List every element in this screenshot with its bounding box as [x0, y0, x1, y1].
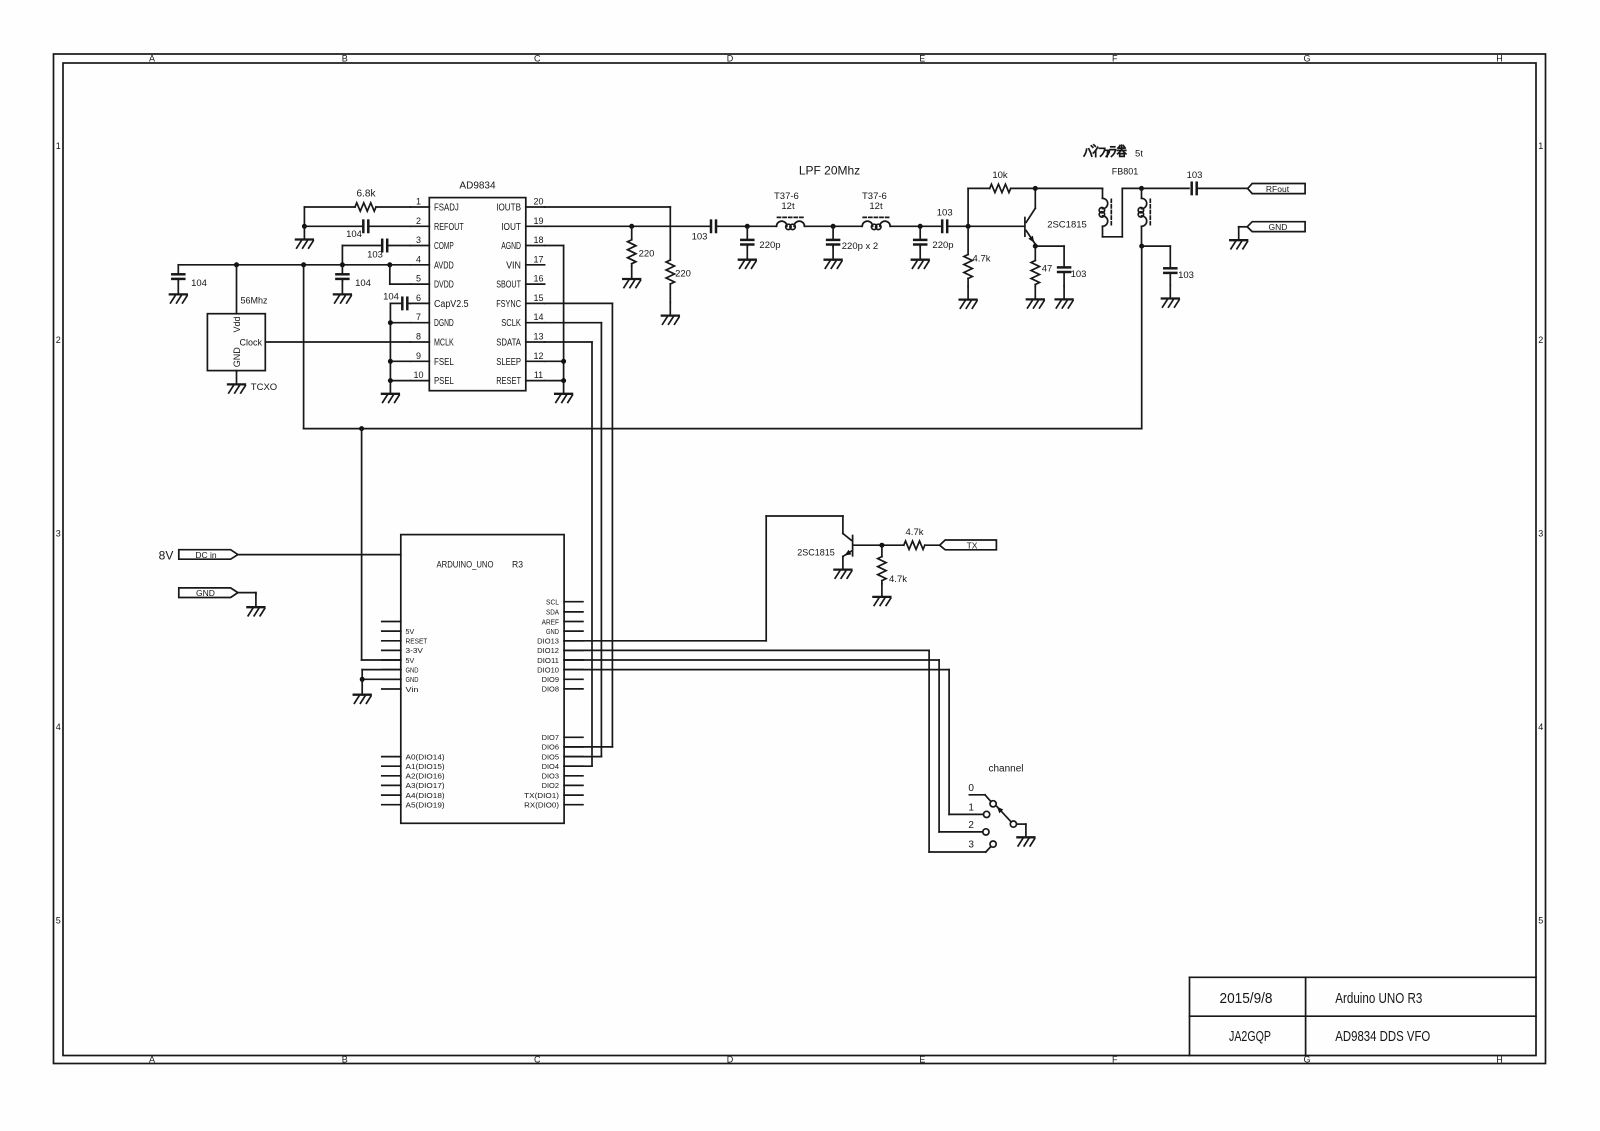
net flag GND left: [179, 588, 238, 598]
svg-text:SCL: SCL: [546, 598, 559, 607]
svg-text:8V: 8V: [159, 549, 174, 563]
svg-text:12: 12: [533, 351, 543, 361]
wire cap to RFout: [1197, 187, 1248, 189]
svg-text:5: 5: [1538, 915, 1543, 925]
svg-text:A1(DIO15): A1(DIO15): [406, 762, 446, 771]
ground under 4.7k shunt: [873, 584, 890, 606]
wire Q2 base shunt down: [881, 545, 883, 556]
capacitor 104 REFOUT series: [368, 225, 410, 227]
svg-text:13: 13: [533, 332, 543, 342]
resistor 4.7k TX series: [904, 541, 925, 549]
transformer FB801 primary return: [1103, 236, 1123, 238]
svg-text:D: D: [727, 54, 734, 64]
U1 pin 4 AVDD stub: [411, 264, 430, 266]
wire emitter down: [1034, 246, 1036, 260]
svg-text:DIO4: DIO4: [542, 762, 559, 771]
svg-text:GND: GND: [1269, 222, 1288, 232]
svg-text:PSEL: PSEL: [434, 376, 454, 387]
node IOUT/220: [629, 224, 634, 229]
U1 pin 18 AGND stub: [526, 245, 545, 247]
switch contact 3 circle: [990, 841, 996, 847]
wire PSEL link: [390, 380, 410, 382]
svg-text:R3: R3: [512, 559, 523, 570]
wire DIO13 to Q2 collector: [564, 640, 766, 642]
svg-text:8: 8: [416, 332, 421, 342]
svg-text:DIO7: DIO7: [542, 733, 559, 742]
U2 pin Vin stub: [382, 688, 401, 690]
node 220p first: [745, 224, 750, 229]
U2 pin A4(DIO18) stub: [382, 794, 401, 796]
transformer FB801 primary core dashes: [1110, 199, 1112, 226]
svg-text:12t: 12t: [869, 201, 883, 212]
svg-text:220p x 2: 220p x 2: [842, 241, 878, 252]
node FB801 output top: [1139, 186, 1144, 191]
wire 4.7k to gnd: [967, 279, 969, 287]
node bus/DGND: [388, 320, 393, 325]
ground under 4.7k base: [960, 286, 977, 308]
wire emitter to 103 cap: [1035, 245, 1064, 247]
U2 pin DIO9 stub: [564, 678, 583, 680]
U2 pin 5V stub: [382, 630, 401, 632]
svg-text:Vdd: Vdd: [232, 316, 242, 332]
capacitor 103 output series: [1192, 183, 1197, 194]
svg-text:SCLK: SCLK: [501, 318, 521, 329]
border column letters bottom: [149, 1054, 1503, 1064]
capacitor 220p second shunt: [919, 226, 921, 240]
svg-text:103: 103: [1187, 170, 1203, 181]
svg-text:G: G: [1303, 54, 1310, 64]
U1 pin 20 IOUTB stub: [526, 206, 545, 208]
U2 pin DIO7 stub: [564, 736, 583, 738]
U2 pin A0(DIO14) stub: [382, 756, 401, 758]
U1 pin 19 IOUT stub: [526, 225, 545, 227]
svg-text:GND: GND: [546, 627, 559, 636]
ground under 104 bypass mid: [334, 281, 351, 303]
node AVDD/COMP: [340, 262, 345, 267]
svg-text:TX: TX: [967, 541, 978, 551]
U2 pin SCL stub: [564, 601, 583, 603]
transformer bifilar winding note (katakana) 5t: [1084, 145, 1126, 157]
wire 4.7k shunt to gnd: [881, 581, 883, 584]
capacitor 103 COMP series: [387, 245, 410, 247]
U2 pin RESET stub: [382, 640, 401, 642]
U2 pin DIO3 stub: [564, 775, 583, 777]
wire base node down: [967, 226, 969, 254]
svg-text:5: 5: [56, 915, 61, 925]
node bus/FSEL: [388, 359, 393, 364]
svg-text:7: 7: [416, 312, 421, 322]
svg-text:MCLK: MCLK: [434, 338, 454, 349]
svg-text:SDA: SDA: [546, 608, 559, 617]
ground under DGND bus: [382, 381, 399, 403]
ground under switch: [1017, 824, 1034, 846]
svg-text:RFout: RFout: [1266, 184, 1290, 194]
ground under 104 bypass left: [170, 281, 187, 303]
wire DIO12 to channel 3: [564, 649, 929, 651]
svg-text:RX(DIO0): RX(DIO0): [524, 801, 559, 810]
wire TCXO clock to MCLK: [265, 341, 410, 343]
wire GND flag left: [238, 592, 256, 594]
ground under 103 emitter: [1056, 286, 1073, 308]
U2 pin DIO10 stub: [564, 669, 583, 671]
svg-text:20: 20: [533, 197, 543, 207]
node 220p second: [918, 224, 923, 229]
svg-text:11: 11: [534, 370, 543, 380]
U2 pin AREF stub: [564, 621, 583, 623]
wire DVDD branch: [389, 265, 391, 284]
U2 pin TX(DIO1) stub: [564, 794, 583, 796]
svg-text:RESET: RESET: [496, 376, 521, 387]
svg-text:DC in: DC in: [195, 550, 217, 560]
svg-text:0: 0: [968, 783, 974, 794]
svg-text:A: A: [149, 1054, 155, 1064]
svg-text:B: B: [342, 1054, 348, 1064]
ground under AGND: [555, 381, 572, 403]
wire TCXO gnd: [236, 370, 238, 373]
svg-text:DIO5: DIO5: [542, 752, 559, 761]
svg-text:FB801: FB801: [1112, 167, 1139, 177]
title block table: [1190, 977, 1537, 1055]
svg-text:18: 18: [533, 235, 543, 245]
svg-text:SBOUT: SBOUT: [496, 280, 521, 291]
svg-text:FSEL: FSEL: [434, 357, 454, 368]
svg-text:COMP: COMP: [434, 241, 454, 252]
svg-text:16: 16: [533, 274, 543, 284]
svg-text:SDATA: SDATA: [496, 338, 521, 349]
svg-text:GND: GND: [406, 665, 419, 674]
U1 pin 5 DVDD stub: [411, 283, 430, 285]
wire switch common to gnd: [1017, 823, 1026, 825]
U1 pin 7 DGND stub: [411, 322, 430, 324]
svg-text:AGND: AGND: [501, 241, 521, 252]
svg-text:2: 2: [56, 335, 61, 345]
svg-text:RESET: RESET: [406, 637, 428, 646]
resistor 4.7k TX shunt: [878, 557, 886, 581]
svg-text:4.7k: 4.7k: [973, 254, 991, 265]
svg-text:2SC1815: 2SC1815: [1047, 220, 1087, 231]
wire supply rail down and left: [1141, 246, 1143, 429]
transistor Q2 2SC1815: [843, 534, 853, 557]
node AVDD/5V riser: [301, 262, 306, 267]
svg-text:REFOUT: REFOUT: [434, 222, 464, 233]
svg-text:103: 103: [367, 250, 383, 261]
svg-text:A0(DIO14): A0(DIO14): [406, 752, 446, 761]
svg-text:2015/9/8: 2015/9/8: [1220, 990, 1273, 1007]
ground under 220p second: [912, 247, 929, 269]
svg-text:DIO10: DIO10: [537, 665, 559, 674]
node AVDD/DVDD: [387, 262, 392, 267]
ground below 6.8k node: [296, 226, 313, 248]
wire COMP branch down to AVDD rail: [341, 246, 343, 265]
U2 pin A1(DIO15) stub: [382, 765, 401, 767]
ground under 47: [1027, 286, 1044, 308]
wire base node up: [967, 188, 969, 226]
svg-text:104: 104: [191, 278, 207, 289]
U1 pin 13 SDATA stub: [526, 341, 545, 343]
ground under 220 IOUT: [623, 266, 640, 288]
svg-text:220: 220: [639, 249, 655, 260]
svg-text:LPF 20Mhz: LPF 20Mhz: [799, 164, 860, 178]
U2 pin A2(DIO16) stub: [382, 775, 401, 777]
svg-text:103: 103: [1071, 269, 1087, 280]
wire 103 to Q1 base: [947, 225, 1023, 227]
svg-text:C: C: [534, 54, 541, 64]
resistor 220 IOUT: [628, 240, 636, 264]
svg-text:CapV2.5: CapV2.5: [434, 299, 469, 310]
svg-text:B: B: [342, 54, 348, 64]
svg-text:H: H: [1496, 54, 1503, 64]
wire arduino GND down: [361, 679, 363, 681]
net flag TX: [940, 540, 997, 550]
node supply rail / arduino 5V: [359, 426, 364, 431]
svg-text:9: 9: [416, 351, 421, 361]
U1 pin 14 SCLK stub: [526, 322, 545, 324]
svg-text:DIO3: DIO3: [542, 772, 559, 781]
svg-text:5V: 5V: [406, 656, 415, 665]
capacitor 103 emitter bypass: [1063, 246, 1065, 267]
svg-text:4: 4: [1538, 722, 1543, 732]
U1 pin 17 VIN stub: [526, 264, 545, 266]
U2 pin DIO4 stub: [564, 765, 583, 767]
svg-text:TCXO: TCXO: [251, 382, 277, 393]
U2 pin DIO8 stub: [564, 688, 583, 690]
wire SDATA to DIO4: [545, 341, 592, 343]
svg-text:3: 3: [416, 235, 421, 245]
IC U1 AD9834 body: [429, 198, 526, 391]
wire Q2 base: [854, 544, 904, 546]
wire DIO11 to channel 2: [564, 659, 939, 661]
svg-text:DGND: DGND: [434, 318, 454, 329]
wire DGND bus vertical: [389, 303, 391, 380]
svg-text:5: 5: [416, 274, 421, 284]
svg-text:Arduino UNO R3: Arduino UNO R3: [1335, 990, 1422, 1007]
wire FSADJ down to gnd node: [303, 207, 305, 226]
resistor 47 emitter: [1031, 261, 1039, 285]
svg-text:AVDD: AVDD: [434, 260, 454, 271]
TCXO oscillator box: [207, 314, 265, 371]
wire FB801 to output cap: [1142, 187, 1190, 189]
resistor 4.7k base: [964, 255, 972, 279]
svg-text:A5(DIO19): A5(DIO19): [406, 801, 446, 810]
svg-text:A4(DIO18): A4(DIO18): [406, 791, 446, 800]
inductor T37-6 second core dashes: [863, 216, 890, 218]
svg-text:3-3V: 3-3V: [406, 646, 423, 655]
wire coil1 to coil2: [805, 225, 863, 227]
border row numbers right: [1538, 141, 1543, 925]
svg-text:3: 3: [56, 528, 61, 538]
wire secondary bottom to 103 shunt: [1142, 245, 1171, 247]
svg-text:DIO2: DIO2: [542, 781, 559, 790]
U1 pin 12 SLEEP stub: [526, 360, 545, 362]
capacitor 104 CapV2.5 series: [407, 302, 410, 304]
svg-text:IOUTB: IOUTB: [496, 203, 521, 214]
net flag GND right: [1247, 222, 1305, 232]
inductor T37-6 second: [862, 221, 890, 230]
transistor Q1 2SC1815: [1025, 188, 1035, 246]
node AGND/RESET: [561, 378, 566, 383]
resistor 220 IOUTB: [666, 260, 674, 284]
node Q2 base: [879, 543, 884, 548]
wire 220 IOUTB to gnd: [669, 284, 671, 302]
svg-text:47: 47: [1042, 264, 1053, 275]
wire 103 to coil1: [716, 225, 777, 227]
U1 pin 8 MCLK stub: [411, 341, 430, 343]
ground under arduino GND: [354, 682, 371, 704]
U1 pin 16 SBOUT stub: [526, 283, 545, 285]
svg-text:6: 6: [416, 293, 421, 303]
svg-text:10k: 10k: [992, 170, 1008, 181]
wire 47 to gnd: [1034, 285, 1036, 287]
node arduino GND: [360, 677, 365, 682]
svg-text:4: 4: [56, 722, 61, 732]
svg-text:DVDD: DVDD: [434, 280, 454, 291]
switch contact 2 circle: [983, 829, 989, 835]
svg-text:D: D: [727, 1054, 734, 1064]
net flag RFout: [1248, 184, 1305, 194]
wire AGND pin18: [545, 245, 564, 247]
node Q1 base junction: [966, 224, 971, 229]
svg-text:19: 19: [533, 216, 543, 226]
svg-text:15: 15: [533, 293, 543, 303]
svg-text:VIN: VIN: [506, 260, 521, 271]
wire SLEEP to AGND: [545, 360, 564, 362]
svg-text:103: 103: [937, 208, 953, 219]
svg-text:JA2GQP: JA2GQP: [1229, 1028, 1271, 1045]
svg-text:6.8k: 6.8k: [357, 189, 377, 200]
svg-text:G: G: [1303, 1054, 1310, 1064]
capacitor 220p first shunt: [746, 226, 748, 240]
U1 pin 3 COMP stub: [411, 245, 430, 247]
switch contact 0 stub: [969, 794, 985, 796]
border column letters top: [149, 54, 1503, 64]
svg-text:17: 17: [533, 254, 543, 264]
svg-text:4.7k: 4.7k: [889, 574, 907, 585]
svg-text:FSADJ: FSADJ: [434, 203, 459, 214]
ground under GND flag: [1230, 227, 1247, 249]
wire FSYNC to DIO6: [545, 302, 613, 304]
svg-text:E: E: [919, 54, 925, 64]
svg-text:E: E: [919, 1054, 925, 1064]
node Q1 emitter: [1033, 244, 1038, 249]
svg-text:ARDUINO_UNO: ARDUINO_UNO: [437, 559, 494, 570]
transformer FB801 primary winding: [1102, 188, 1104, 198]
node 220p x2: [831, 224, 836, 229]
svg-text:A2(DIO16): A2(DIO16): [406, 772, 446, 781]
svg-text:104: 104: [346, 229, 362, 240]
switch common contact circle: [1010, 821, 1016, 827]
svg-text:220p: 220p: [932, 240, 953, 251]
U2 pin GND stub: [564, 630, 583, 632]
wire DGND stub link: [390, 322, 410, 324]
svg-text:1: 1: [1538, 141, 1543, 151]
svg-text:104: 104: [383, 291, 399, 302]
ground under 220 IOUTB: [662, 302, 679, 324]
svg-text:104: 104: [355, 278, 371, 289]
wire arduino GND bracket: [362, 669, 401, 671]
ground under 220p x2: [825, 247, 842, 269]
capacitor 104 AVDD bypass mid: [341, 265, 343, 275]
svg-text:2SC1815: 2SC1815: [797, 548, 835, 558]
switch contact 1 circle: [984, 811, 990, 817]
svg-text:10: 10: [413, 370, 423, 380]
svg-text:2: 2: [1538, 335, 1543, 345]
svg-text:103: 103: [1178, 270, 1194, 281]
wire DC in to arduino: [238, 554, 401, 556]
ground under 220p first: [739, 247, 756, 269]
svg-text:FSYNC: FSYNC: [496, 299, 521, 310]
U2 pin A5(DIO19) stub: [382, 804, 401, 806]
wire SCLK to DIO5: [545, 322, 602, 324]
net flag DC in: [179, 550, 238, 560]
svg-text:2: 2: [416, 216, 421, 226]
svg-text:220p: 220p: [759, 240, 780, 251]
svg-text:DIO9: DIO9: [542, 675, 559, 684]
node Q1 collector: [1033, 186, 1038, 191]
wire AVDD rail: [178, 264, 410, 266]
svg-text:14: 14: [533, 312, 543, 322]
wire FSEL link: [390, 360, 410, 362]
svg-text:5t: 5t: [1135, 149, 1143, 160]
svg-text:GND: GND: [406, 675, 419, 684]
wire 220 shunt: [631, 226, 633, 239]
capacitor 103 supply bypass: [1169, 246, 1171, 268]
capacitor 220p x 2 shunt: [832, 226, 834, 240]
svg-text:DIO11: DIO11: [537, 656, 559, 665]
svg-text:DIO8: DIO8: [542, 685, 559, 694]
svg-text:AD9834: AD9834: [459, 181, 496, 192]
U2 pin SDA stub: [564, 611, 583, 613]
inductor T37-6 first: [777, 221, 805, 230]
border row numbers left: [56, 141, 61, 925]
wire DIO10 to channel 1: [564, 669, 949, 671]
svg-text:GND: GND: [232, 347, 242, 368]
U2 pin nc stub: [382, 621, 401, 623]
svg-text:F: F: [1112, 1054, 1118, 1064]
svg-text:3: 3: [1538, 528, 1543, 538]
svg-text:103: 103: [692, 232, 708, 243]
U2 pin GND stub: [382, 678, 401, 680]
inductor T37-6 first core dashes: [778, 216, 805, 218]
U2 pin GND stub: [382, 669, 401, 671]
wire IOUTB pin20: [545, 206, 671, 208]
U2 pin DIO6 stub: [564, 746, 583, 748]
U1 pin 2 REFOUT stub: [411, 225, 430, 227]
U2 pin DIO5 stub: [564, 756, 583, 758]
ground under TCXO: [228, 371, 245, 393]
U2 pin DIO13 stub: [564, 640, 583, 642]
svg-text:4: 4: [416, 254, 421, 264]
U1 pin 6 CapV2.5 stub: [411, 302, 430, 304]
wire collector rail to FB801: [1035, 187, 1102, 189]
U1 pin 11 RESET stub: [526, 380, 545, 382]
U2 pin A3(DIO17) stub: [382, 784, 401, 786]
svg-text:56Mhz: 56Mhz: [240, 296, 268, 306]
svg-text:4.7k: 4.7k: [906, 527, 924, 538]
U2 pin 5V stub: [382, 659, 401, 661]
node bus/PSEL: [388, 378, 393, 383]
svg-text:TX(DIO1): TX(DIO1): [524, 791, 559, 800]
svg-text:1: 1: [416, 197, 421, 207]
svg-text:SLEEP: SLEEP: [496, 357, 521, 368]
svg-text:220: 220: [675, 269, 691, 280]
wire coil2 to cap103: [890, 225, 942, 227]
svg-text:H: H: [1496, 1054, 1503, 1064]
svg-text:C: C: [534, 1054, 541, 1064]
wire IOUT pin19: [545, 225, 711, 227]
svg-text:A: A: [149, 54, 155, 64]
U2 pin DIO12 stub: [564, 649, 583, 651]
U1 pin 15 FSYNC stub: [526, 302, 545, 304]
